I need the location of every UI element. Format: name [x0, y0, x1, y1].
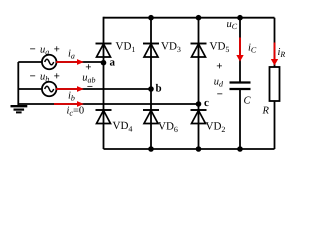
- diode VD5: [191, 44, 207, 58]
- svg-text:ia: ia: [68, 49, 75, 61]
- node dot top col3: [196, 15, 202, 21]
- wire left vertical (neutral): [17, 62, 19, 106]
- svg-text:uC: uC: [227, 19, 238, 31]
- svg-text:ud: ud: [214, 76, 224, 88]
- svg-text:−: −: [30, 71, 36, 83]
- svg-text:+: +: [216, 60, 222, 72]
- node b dot: [148, 86, 154, 92]
- node c dot: [196, 101, 202, 107]
- node dot bottom col2: [148, 146, 154, 152]
- wire phase b: [18, 88, 151, 90]
- svg-text:ub: ub: [40, 71, 49, 83]
- capacitor C plates: [230, 83, 251, 90]
- svg-text:+: +: [54, 71, 60, 83]
- wire resistor branch top: [274, 18, 276, 67]
- svg-text:VD5: VD5: [210, 41, 230, 55]
- resistor R body: [270, 67, 280, 101]
- svg-text:a: a: [110, 57, 116, 69]
- diode VD1: [96, 44, 112, 58]
- ac source ua: [42, 55, 57, 70]
- wire column 2 (VD3/VD6 leg): [150, 18, 152, 149]
- svg-text:ib: ib: [68, 91, 75, 103]
- diode VD4: [96, 110, 112, 124]
- ground: [11, 106, 28, 112]
- node a dot: [101, 60, 107, 66]
- node dot bottom col3: [196, 146, 202, 152]
- svg-text:VD4: VD4: [113, 120, 133, 134]
- current arrow ia: [56, 59, 84, 65]
- current arrow iR: [271, 43, 278, 66]
- diode VD6: [143, 110, 159, 124]
- svg-text:VD3: VD3: [161, 41, 181, 55]
- svg-text:R: R: [262, 106, 270, 117]
- svg-text:b: b: [156, 82, 162, 94]
- svg-text:−: −: [87, 81, 93, 93]
- svg-text:c: c: [204, 97, 209, 109]
- current arrow iC: [236, 38, 243, 62]
- wire column 3 (VD5/VD2 leg): [198, 18, 200, 149]
- wire phase c: [18, 103, 198, 105]
- node dot top col2: [148, 15, 154, 21]
- diode VD3: [143, 44, 159, 58]
- svg-text:ua: ua: [40, 44, 49, 56]
- svg-text:ic=0: ic=0: [67, 106, 85, 118]
- wire bottom rail: [104, 148, 275, 150]
- wire capacitor branch top: [239, 18, 241, 82]
- current arrow ic: [54, 101, 84, 107]
- wire column 1 (VD1/VD4 leg): [103, 17, 105, 149]
- current arrow ib: [56, 86, 84, 92]
- svg-text:iC: iC: [248, 43, 257, 55]
- svg-text:iR: iR: [278, 47, 286, 59]
- diode VD2: [191, 110, 207, 124]
- wire resistor branch bottom: [274, 101, 276, 149]
- node dot top capacitor: [237, 15, 243, 21]
- svg-text:C: C: [244, 96, 252, 107]
- wire phase a: [18, 61, 103, 63]
- wire capacitor branch bottom: [239, 89, 241, 149]
- svg-text:−: −: [30, 44, 36, 56]
- svg-text:VD6: VD6: [158, 121, 178, 135]
- wire top rail: [104, 17, 275, 19]
- node dot bottom capacitor: [237, 146, 243, 152]
- svg-text:VD2: VD2: [206, 121, 226, 135]
- ac source ub: [42, 82, 57, 97]
- svg-text:−: −: [217, 88, 223, 100]
- svg-text:VD1: VD1: [116, 41, 136, 55]
- svg-text:+: +: [54, 44, 60, 56]
